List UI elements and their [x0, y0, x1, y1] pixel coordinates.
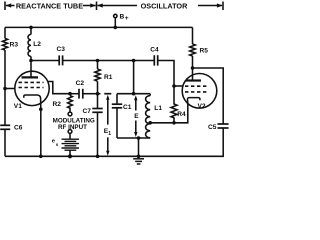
node tank top [132, 92, 136, 96]
wire rail corner to R5 [192, 27, 194, 44]
svg-text:+: + [125, 15, 129, 22]
svg-text:C3: C3 [57, 46, 66, 53]
capacitor C1 [112, 104, 122, 108]
wire tank feed [133, 61, 135, 94]
capacitor C7 [92, 109, 102, 113]
capacitor C3 [59, 55, 62, 65]
wire R1 bottom stub [97, 81, 99, 93]
wire left rail middle [4, 50, 6, 125]
V2 grid row 1 [185, 85, 207, 87]
svg-text:B: B [120, 14, 125, 21]
V1 grid row 1 [19, 81, 44, 83]
wire L2 to plate node [30, 56, 32, 60]
svg-text:C4: C4 [150, 46, 159, 53]
wire C7 to ground rail [97, 113, 99, 157]
svg-text:C5: C5 [208, 124, 217, 131]
triode V1 envelope [15, 71, 49, 105]
resistor R1 [95, 69, 100, 81]
svg-text:R4: R4 [177, 111, 186, 118]
svg-text:1: 1 [108, 131, 111, 137]
dimension bar right [222, 2, 224, 11]
node R1 bottom [96, 92, 100, 96]
wire grid line to C2 [70, 93, 79, 95]
arrow E1 lower [106, 137, 109, 156]
dimension bar left [4, 2, 6, 11]
svg-text:REACTANCE TUBE: REACTANCE TUBE [16, 1, 83, 10]
node tank feed top [132, 59, 136, 63]
wire V2 cathode down [150, 103, 188, 123]
svg-text:E: E [134, 113, 139, 120]
arrow E1 crossbar [104, 93, 111, 95]
inductor L2 [28, 34, 31, 56]
wire grid to V2 [174, 85, 183, 87]
node rail V1 cathode [39, 155, 43, 159]
arrow E upper [134, 95, 137, 110]
dimension arrow right (OSCILLATOR) [198, 3, 223, 7]
wire V1 grid to R2 node [48, 82, 70, 94]
svg-text:C1: C1 [123, 104, 132, 111]
dimension arrow left (OSCILLATOR) [97, 3, 137, 7]
wire source stub [69, 134, 71, 140]
ground [133, 159, 144, 164]
wire V1 cathode to ground rail [40, 109, 42, 156]
svg-text:R5: R5 [200, 48, 209, 55]
V2 plate [186, 79, 202, 81]
node L1 tap [148, 121, 152, 125]
svg-text:R1: R1 [104, 74, 113, 81]
svg-text:R2: R2 [53, 101, 62, 108]
svg-text:C7: C7 [83, 108, 92, 115]
node R4 bottom [172, 121, 176, 125]
terminal B+ [114, 14, 117, 27]
resistor R2 [68, 96, 73, 113]
node V2 plate [191, 66, 195, 70]
svg-text:RF INPUT: RF INPUT [58, 124, 87, 131]
inductor L1 [146, 96, 151, 138]
wire tank bottom [117, 137, 150, 139]
wire L1 column top [149, 94, 151, 96]
wire C4 to grid column [158, 61, 174, 87]
V1 grid row 2 [19, 87, 44, 89]
dimension arrow left (REACTANCE TUBE) [6, 3, 15, 7]
wire C1 column top [116, 94, 118, 104]
V1 plate [22, 76, 39, 78]
wire plate node to C5 [193, 68, 224, 124]
capacitor C5 [218, 124, 229, 128]
resistor R3 [2, 38, 7, 50]
terminal source top [68, 130, 72, 134]
wire source to ground rail [69, 150, 71, 156]
capacitor C2 [79, 89, 83, 99]
wire left rail upper [4, 27, 6, 38]
node tank bottom ground [137, 136, 141, 140]
wire tank top [117, 93, 150, 95]
wire grid to V1 [5, 88, 15, 90]
wire C7 column [97, 94, 99, 108]
svg-text:V2: V2 [198, 103, 206, 110]
source e_s bars [62, 139, 80, 150]
node R2 top [68, 92, 72, 96]
triode V2 envelope [182, 74, 217, 109]
wire R1 top stub [97, 61, 99, 70]
svg-text:C6: C6 [14, 125, 23, 132]
wire R5 to plate node [192, 56, 194, 68]
wire plate line [31, 60, 59, 62]
dimension arrow right (REACTANCE TUBE) [83, 3, 96, 7]
resistor R4 [171, 86, 177, 123]
node ground rail [137, 155, 141, 159]
node plate V1 [29, 59, 33, 63]
wire V2 plate stub [192, 68, 194, 81]
node grid left [3, 87, 7, 91]
wire C5 to ground rail [5, 128, 223, 156]
wire C2 to R1 bottom [83, 93, 97, 95]
svg-text:R3: R3 [10, 41, 19, 48]
terminal R2 input [68, 112, 72, 116]
svg-text:L1: L1 [154, 105, 162, 112]
svg-text:L2: L2 [33, 41, 41, 48]
V1 cathode [24, 95, 41, 109]
node rail C7 [96, 155, 100, 159]
node V1 cathode exit [39, 108, 43, 112]
dimension bar middle [96, 2, 98, 11]
wire plate stub V1 [30, 61, 32, 78]
V2 grid row 2 [185, 91, 207, 93]
resistor R5 [190, 44, 196, 56]
arrow E lower [134, 121, 137, 138]
node L2 top [29, 26, 33, 30]
svg-text:C2: C2 [76, 80, 85, 87]
wire plate line to R1 [63, 60, 154, 62]
node B+ on rail [114, 26, 118, 30]
node V2 grid [172, 84, 176, 88]
svg-text:V1: V1 [14, 103, 22, 110]
wire L2 column top [30, 27, 32, 34]
node rail source [68, 154, 72, 158]
V2 cathode [187, 98, 199, 103]
wire C1 column bottom [116, 108, 118, 138]
svg-text:OSCILLATOR: OSCILLATOR [141, 1, 188, 10]
wire R1 bottom right stub [98, 93, 101, 95]
wire tank bottom to ground rail [138, 138, 140, 156]
wire top B+ rail [5, 26, 193, 28]
wire left rail lower [4, 130, 6, 157]
arrow E1 upper [106, 95, 109, 125]
capacitor C6 [0, 125, 10, 129]
node R1 top [96, 59, 100, 63]
capacitor C4 [154, 55, 157, 65]
